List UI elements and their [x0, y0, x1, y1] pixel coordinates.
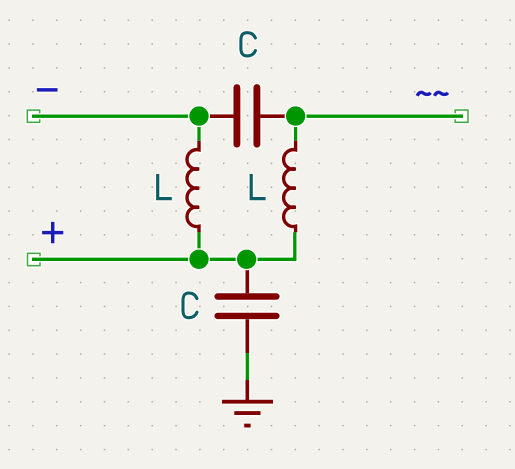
- capacitor C1 (top, horizontal): [199, 88, 296, 145]
- port square: top-left unconnected wire end: [25, 108, 42, 124]
- ground GND: [222, 380, 273, 426]
- wire: top rail right segment: [296, 113, 463, 119]
- junction node D: [236, 248, 258, 270]
- wire: inductor L1 bottom to node C: [196, 232, 202, 259]
- label L1 value "L": [158, 174, 172, 199]
- label L2 value "L": [251, 174, 265, 199]
- wire: capacitor C2 bottom to ground: [244, 353, 250, 381]
- junction node A: [188, 105, 210, 127]
- capacitor C2 (bottom, vertical): [218, 259, 277, 353]
- pin label "+" (plus): [42, 222, 63, 243]
- wire: top rail left segment: [32, 113, 200, 119]
- inductor L1 (left): [187, 141, 199, 232]
- port square: top-right unconnected wire end: [453, 108, 470, 125]
- pin label "~~" (AC): [417, 92, 448, 95]
- inductor L2 (right): [284, 141, 296, 232]
- junction node B: [285, 105, 307, 127]
- pin label "-" (minus): [37, 87, 58, 93]
- port square: bottom-left unconnected wire end: [25, 251, 42, 268]
- wire: bottom rail: [32, 232, 295, 259]
- junction node C: [188, 248, 210, 270]
- label C2 value "C": [183, 293, 197, 318]
- wire: left drop from node A to inductor L1: [196, 116, 202, 141]
- wire: right drop from node B to inductor L2: [293, 116, 299, 141]
- label C1 value "C": [241, 33, 256, 56]
